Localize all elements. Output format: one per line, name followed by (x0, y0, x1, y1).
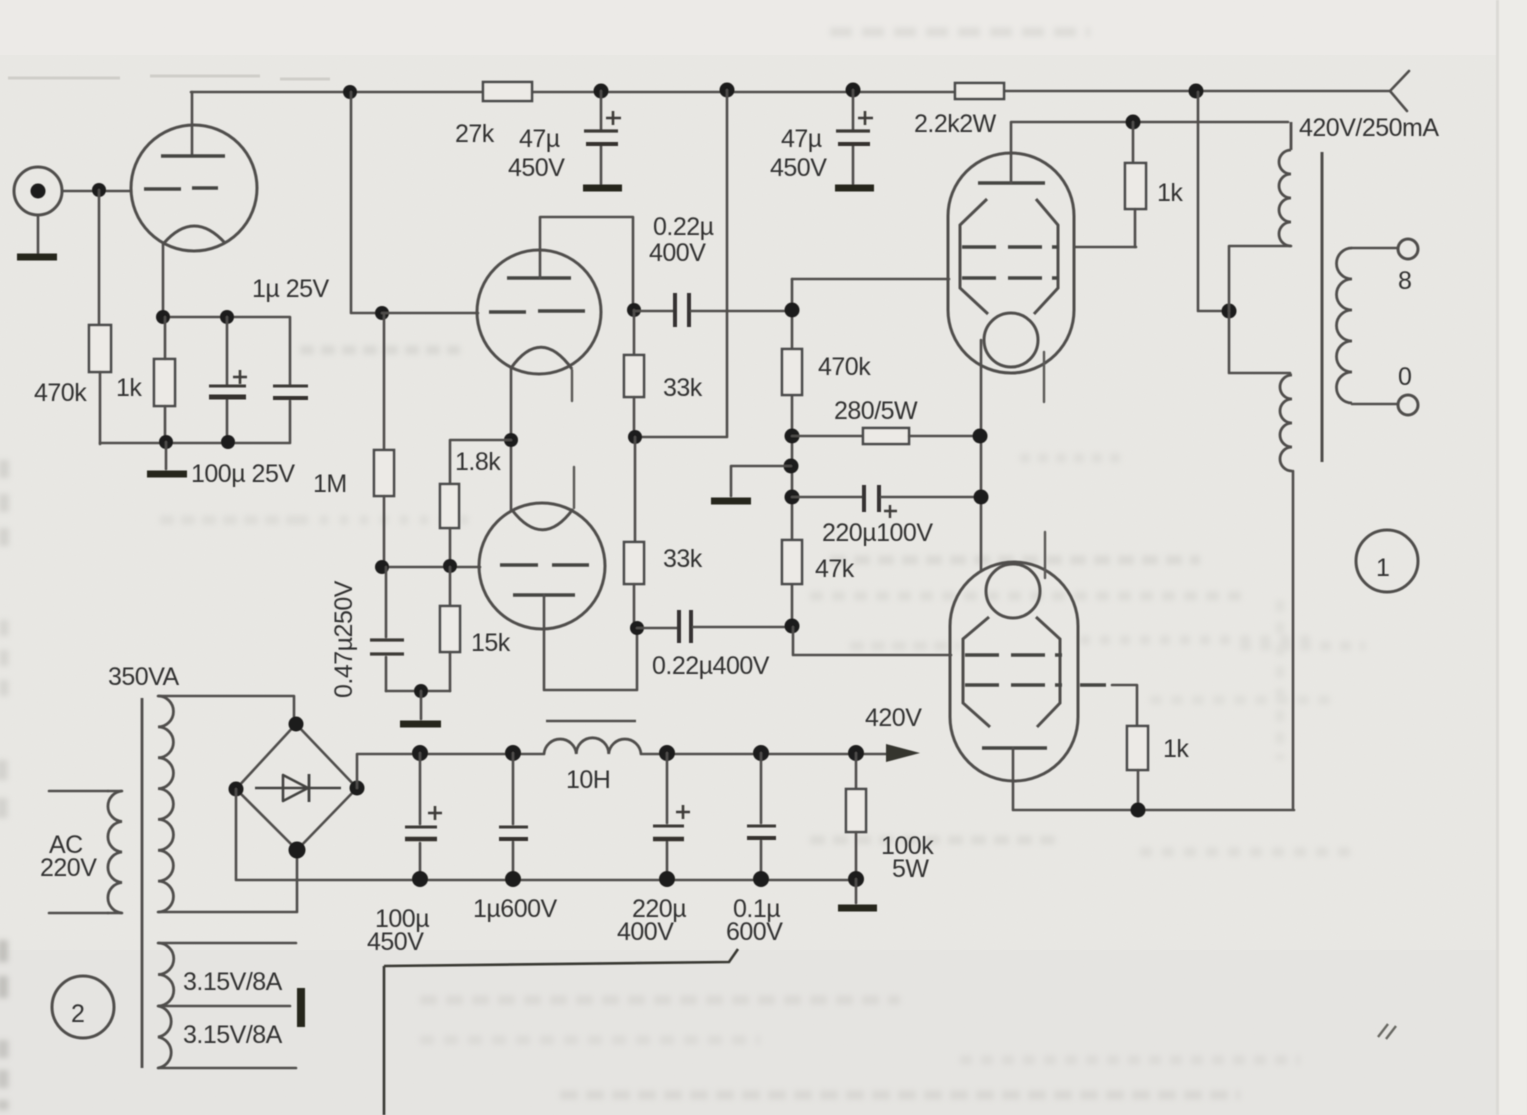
svg-text:2: 2 (71, 1000, 84, 1028)
V2 grid dashes (489, 311, 585, 312)
page box outline bottom (384, 949, 738, 1115)
wire filament leads (158, 943, 296, 1068)
resistor 47k divider (782, 540, 802, 584)
node junction 0.22u upper / 470k (785, 303, 800, 318)
node junction 220u400V top (659, 745, 675, 761)
wire cathode bottom bus (100, 401, 290, 443)
wire lower coil to anode V5 (1292, 471, 1295, 808)
svg-text:450V: 450V (508, 154, 565, 182)
capacitor 100u450V (419, 753, 422, 879)
node junction 220u400V bottom (659, 871, 675, 887)
svg-text:15k: 15k (471, 629, 511, 657)
V1 plate (161, 154, 225, 158)
capacitor 100u25V electrolytic (226, 317, 229, 442)
wire DC plus riser (357, 754, 544, 788)
wire V4 cathode stub (1043, 352, 1045, 402)
capacitor 47u450V no2 (852, 90, 855, 184)
node junction cathode / 280-5W (973, 429, 988, 444)
node junction 100u450V top (412, 745, 428, 761)
tube V5 lower output envelope (950, 562, 1078, 781)
wire ground bus 0.47u/15k (386, 690, 450, 693)
node junction ground tap (784, 459, 799, 474)
V1 grid dashes (144, 188, 218, 189)
resistor 470k divider (782, 349, 802, 395)
faint page edge shadow right (1496, 0, 1499, 1115)
svg-text:27k: 27k (455, 120, 495, 148)
ground PSU (855, 879, 858, 903)
wire grid feed upper output tube (792, 278, 949, 281)
inductor OPT secondary (1337, 248, 1353, 403)
wire jack to grid (62, 190, 131, 193)
wire V5 g2 to 1k (1080, 683, 1106, 686)
wire cathode chain output tubes (980, 340, 983, 570)
svg-text:100µ 25V: 100µ 25V (191, 460, 295, 488)
wire cathode top bus (163, 317, 290, 385)
svg-text:1k: 1k (116, 374, 142, 402)
node junction 1.8k / cathode (504, 433, 518, 447)
inductor PT primary 220V (108, 791, 122, 913)
node junction 33k mid / B+ (628, 430, 642, 444)
wire V5 anode route (1013, 748, 1294, 810)
node junction 100k bottom (848, 871, 864, 887)
svg-text:420V/250mA: 420V/250mA (1299, 114, 1439, 142)
svg-text:220µ100V: 220µ100V (822, 519, 933, 547)
node rail junction 47u no2 (846, 83, 861, 98)
V3 plate (513, 593, 575, 597)
inductor filament winding 1 (158, 943, 174, 1006)
svg-text:47µ: 47µ (781, 125, 822, 153)
V5 control grid dashes (965, 653, 1062, 656)
node junction 220u (785, 490, 800, 505)
node junction 1M/0.47u (375, 560, 389, 574)
node junction anode V2 / 33k (627, 303, 641, 317)
svg-text:1k: 1k (1163, 735, 1189, 763)
left margin glyph column (0, 460, 9, 560)
V2 cathode arc (511, 347, 572, 369)
svg-text:2.2k2W: 2.2k2W (914, 110, 997, 138)
choke core bar (546, 720, 636, 723)
svg-text:1.8k: 1.8k (455, 448, 501, 476)
wire 280/5W left (792, 435, 863, 438)
svg-text:450V: 450V (367, 928, 424, 956)
wire V3 plate route (544, 595, 637, 690)
node junction cathode / 220u (974, 490, 989, 505)
node bridge right vertex (350, 781, 365, 796)
V5 beam plates octagon (963, 617, 1060, 727)
node junction jack/470k (92, 183, 106, 197)
capacitor 1u25V (273, 385, 308, 388)
node junction 0.1u600V bottom (753, 871, 769, 887)
node rail junction OPT center tap (1189, 84, 1204, 99)
node grid row junction (375, 306, 389, 320)
resistor 470k input (89, 325, 111, 372)
bridge rectifier diamond (236, 724, 357, 850)
svg-text:33k: 33k (663, 545, 703, 573)
V5 screen grid dashes (965, 683, 1062, 686)
resistor 280/5W (863, 428, 909, 444)
tube V2 upper driver triode (477, 250, 601, 374)
node 420V arrow (886, 744, 920, 762)
ground under jack (37, 215, 40, 253)
V4 plate (978, 181, 1045, 185)
svg-text:600V: 600V (726, 918, 783, 946)
inductor OPT primary lower (1280, 375, 1292, 471)
node terminal 8 ohm (1398, 239, 1418, 259)
wire V2 cathode stub (571, 370, 573, 401)
V4 cathode (984, 313, 1038, 367)
svg-text:0.47µ250V: 0.47µ250V (330, 580, 358, 698)
resistor 15k (449, 567, 452, 606)
node junction 100k top (848, 745, 864, 761)
capacitor 0.47u250V (385, 567, 388, 691)
V3 grid dashes (500, 563, 589, 566)
V4 control grid dashes (962, 276, 1058, 279)
resistor 27k on rail (483, 82, 532, 101)
wire DC minus bus (236, 789, 856, 880)
capacitor 0.1u600V (760, 753, 763, 879)
inductor choke 10H (544, 738, 641, 754)
wire HV top lead to bridge (158, 696, 294, 722)
svg-text:3.15V/8A: 3.15V/8A (183, 968, 283, 996)
svg-text:280/5W: 280/5W (834, 397, 918, 425)
wire V4 anode (1011, 122, 1288, 183)
wire DC plus bus after choke (641, 753, 887, 756)
node junction anode / 1k g2 (1126, 115, 1141, 130)
wire secondary top lead (1352, 247, 1397, 250)
svg-text:1µ600V: 1µ600V (473, 895, 558, 923)
circled 1 figure mark (1356, 530, 1418, 592)
node junction 0.1u600V top (753, 745, 769, 761)
wire riser rail to grid row (351, 92, 382, 313)
OPT core (1321, 152, 1324, 462)
node junction 280/5W (785, 429, 800, 444)
svg-text:470k: 470k (34, 379, 87, 407)
svg-text:1µ 25V: 1µ 25V (252, 275, 330, 303)
wire HV bottom lead to bridge (158, 852, 297, 912)
input jack J1 (14, 167, 62, 215)
wire V1 cathode lead (162, 243, 165, 317)
svg-text:3.15V/8A: 3.15V/8A (183, 1021, 283, 1049)
circled 2 figure mark (52, 976, 114, 1038)
svg-text:450V: 450V (770, 154, 827, 182)
resistor 1M (383, 313, 386, 450)
svg-text:350VA: 350VA (108, 663, 180, 691)
node junction 1u600V bottom (505, 871, 521, 887)
svg-text:400V: 400V (649, 239, 706, 267)
wire V3 grid to junction (382, 566, 480, 569)
wire V3 cathode stub (573, 467, 575, 508)
resistor 1.8k (440, 484, 459, 528)
resistor 2.2k2W on rail (955, 83, 1004, 99)
node rail end arrow fork 420V/250mA (1390, 71, 1409, 111)
node junction grid V3 (443, 559, 457, 573)
svg-text:0.22µ: 0.22µ (653, 213, 714, 241)
wire center tap to lower coil (1229, 311, 1290, 373)
wire divider chain vertical (791, 279, 794, 625)
node rail junction 47u no1 (594, 84, 609, 99)
node junction 33k bottom / plate V3 (630, 621, 644, 635)
node junction primary center tap (1222, 304, 1237, 319)
capacitor 0.22u400V lower coupling (637, 627, 677, 630)
svg-text:1: 1 (1376, 554, 1389, 582)
node bridge top vertex (289, 717, 304, 732)
wire 1.8k top (450, 440, 511, 484)
page mark double slash (1378, 1024, 1396, 1039)
inductor PT HV secondary (158, 696, 173, 912)
decorative bleed-through texture (0, 0, 1, 1)
tube V4 upper output envelope (948, 153, 1074, 373)
tube V1 input triode (131, 125, 257, 251)
svg-text:1k: 1k (1157, 179, 1183, 207)
node cap junction top (220, 310, 234, 324)
inductor filament winding 2 (158, 1006, 171, 1068)
svg-text:47k: 47k (815, 555, 855, 583)
node bottom junction cap (221, 435, 235, 449)
svg-text:220V: 220V (40, 854, 97, 882)
svg-text:33k: 33k (663, 374, 703, 402)
resistor 100k 5W (855, 753, 858, 789)
svg-text:470k: 470k (818, 353, 871, 381)
node junction 0.22u lower (785, 619, 800, 634)
V3 cathode arc (512, 509, 573, 530)
svg-text:0: 0 (1398, 363, 1411, 391)
capacitor 220u100V (792, 496, 862, 499)
capacitor 220u400V (666, 753, 669, 879)
wire B+ rail (191, 91, 1390, 92)
wire B+ riser to 33k mid (636, 90, 727, 437)
capacitor 1u600V (512, 753, 515, 879)
diode inside bridge (255, 787, 341, 790)
V2 plate (507, 276, 571, 280)
ground divider tap (731, 466, 791, 496)
node junction 100u450V bottom (412, 871, 428, 887)
ground filament center bar (297, 988, 305, 1027)
PT core (141, 698, 144, 1068)
node bridge left vertex (229, 782, 244, 797)
wire V2 cathode lead chain (510, 368, 513, 510)
V1 cathode arc (164, 226, 225, 243)
resistor 33k upper (633, 310, 636, 355)
ground 0.47u/15k (420, 691, 423, 719)
resistor 1k screen lower (1127, 726, 1148, 770)
wire secondary bottom lead (1352, 403, 1397, 406)
svg-text:10H: 10H (566, 766, 610, 794)
svg-text:1M: 1M (313, 470, 347, 498)
wire center tap riser (1198, 92, 1229, 311)
svg-text:0.22µ400V: 0.22µ400V (652, 652, 770, 680)
svg-text:400V: 400V (617, 918, 674, 946)
V4 screen grid dashes (962, 245, 1058, 248)
svg-text:5W: 5W (892, 855, 929, 883)
node junction 1u600V top (505, 745, 521, 761)
node rail junction anode V1 (343, 85, 357, 99)
tube V3 lower driver triode (479, 503, 605, 629)
V5 cathode (986, 564, 1040, 618)
wire grid row to V2 (382, 312, 478, 315)
node terminal 0 ohm (1398, 395, 1418, 415)
wire V4 g2 to 1k (1074, 246, 1136, 249)
V4 beam plates octagon (960, 199, 1058, 314)
capacitor 0.22u400V upper coupling (634, 310, 673, 313)
V5 plate (982, 746, 1047, 750)
node junction 1k / anode V5 (1131, 803, 1146, 818)
wire V5 cathode stub (1044, 532, 1046, 578)
wire 470k drop (98, 190, 101, 325)
node bottom junction 1k (159, 435, 173, 449)
svg-text:420V: 420V (865, 704, 922, 732)
svg-text:47µ: 47µ (519, 125, 560, 153)
wire grid feed lower output tube (793, 627, 951, 655)
faint smudge line top-left (bleed-through of rail) (8, 76, 330, 79)
node junction ground (414, 684, 428, 698)
resistor 33k lower (634, 437, 637, 542)
ground cathode network (165, 442, 168, 469)
node bridge bottom vertex (289, 842, 306, 859)
inductor OPT primary upper (1290, 122, 1293, 150)
wire V2 anode route (540, 217, 633, 310)
wire tube1 anode riser (191, 92, 194, 156)
capacitor 47u450V no1 (600, 91, 603, 184)
svg-text:8: 8 (1398, 267, 1411, 295)
node rail junction B+ riser (720, 83, 735, 98)
resistor 1k screen upper (1132, 122, 1135, 163)
wire AC input leads (49, 791, 108, 913)
wire upper coil bottom lead (1229, 246, 1291, 311)
node cathode junction (156, 310, 170, 324)
resistor 1k cathode (154, 359, 175, 406)
